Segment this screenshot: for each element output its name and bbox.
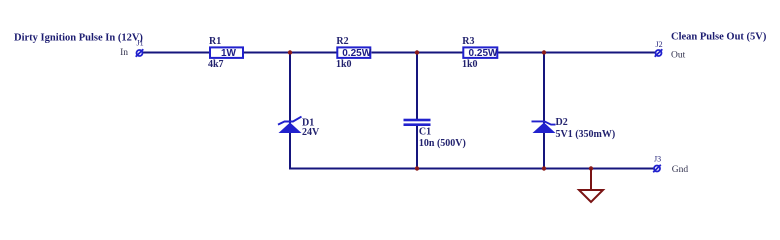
junction node at R2/R3/C1	[415, 50, 419, 54]
svg-text:J3: J3	[654, 155, 661, 164]
svg-text:Gnd: Gnd	[672, 165, 689, 175]
junction node at R1/R2/D1	[288, 50, 292, 54]
wire R1 to R2	[244, 52, 337, 54]
terminal J2	[655, 40, 686, 60]
svg-text:0.25W: 0.25W	[469, 48, 498, 59]
ground symbol	[579, 169, 603, 203]
wire C1 vertical upper	[416, 53, 418, 120]
svg-text:Dirty Ignition Pulse In (12V): Dirty Ignition Pulse In (12V)	[14, 33, 143, 44]
svg-text:R3: R3	[462, 36, 474, 47]
wire bottom ground rail	[289, 168, 654, 170]
svg-text:1W: 1W	[221, 48, 237, 59]
terminal J3	[653, 155, 688, 176]
wire J1 to R1	[143, 52, 210, 54]
svg-text:24V: 24V	[302, 127, 320, 138]
resistor R2	[336, 36, 372, 70]
svg-text:In: In	[120, 48, 128, 58]
svg-text:1k0: 1k0	[462, 59, 478, 70]
svg-text:J2: J2	[656, 40, 663, 49]
junction node at D2 bottom	[542, 166, 546, 170]
junction node at C1 bottom	[415, 166, 419, 170]
svg-text:R1: R1	[209, 36, 221, 47]
svg-text:Clean Pulse Out (5V): Clean Pulse Out (5V)	[671, 32, 767, 43]
resistor R1	[208, 36, 243, 70]
wire D1 vertical branch	[289, 53, 291, 169]
svg-text:D2: D2	[556, 117, 568, 128]
svg-text:R2: R2	[336, 36, 348, 47]
wire R2 to R3	[372, 52, 463, 54]
junction node at ground stem	[589, 166, 593, 170]
zener diode D2	[532, 117, 616, 140]
svg-text:J1: J1	[137, 39, 144, 48]
junction node at R3/D2 top	[542, 50, 546, 54]
svg-text:0.25W: 0.25W	[342, 48, 371, 59]
wire C1 vertical lower	[416, 126, 418, 169]
wire D2 vertical branch	[543, 53, 545, 169]
wire R3 to J2	[498, 52, 656, 54]
zener diode D1	[278, 117, 320, 139]
svg-text:Out: Out	[671, 50, 686, 60]
svg-text:10n (500V): 10n (500V)	[419, 138, 466, 149]
resistor R3	[462, 36, 498, 70]
terminal J1	[120, 39, 144, 58]
svg-text:4k7: 4k7	[208, 59, 224, 70]
svg-text:1k0: 1k0	[336, 59, 352, 70]
capacitor C1	[404, 119, 466, 149]
svg-text:C1: C1	[419, 126, 431, 137]
svg-text:5V1 (350mW): 5V1 (350mW)	[556, 129, 616, 140]
